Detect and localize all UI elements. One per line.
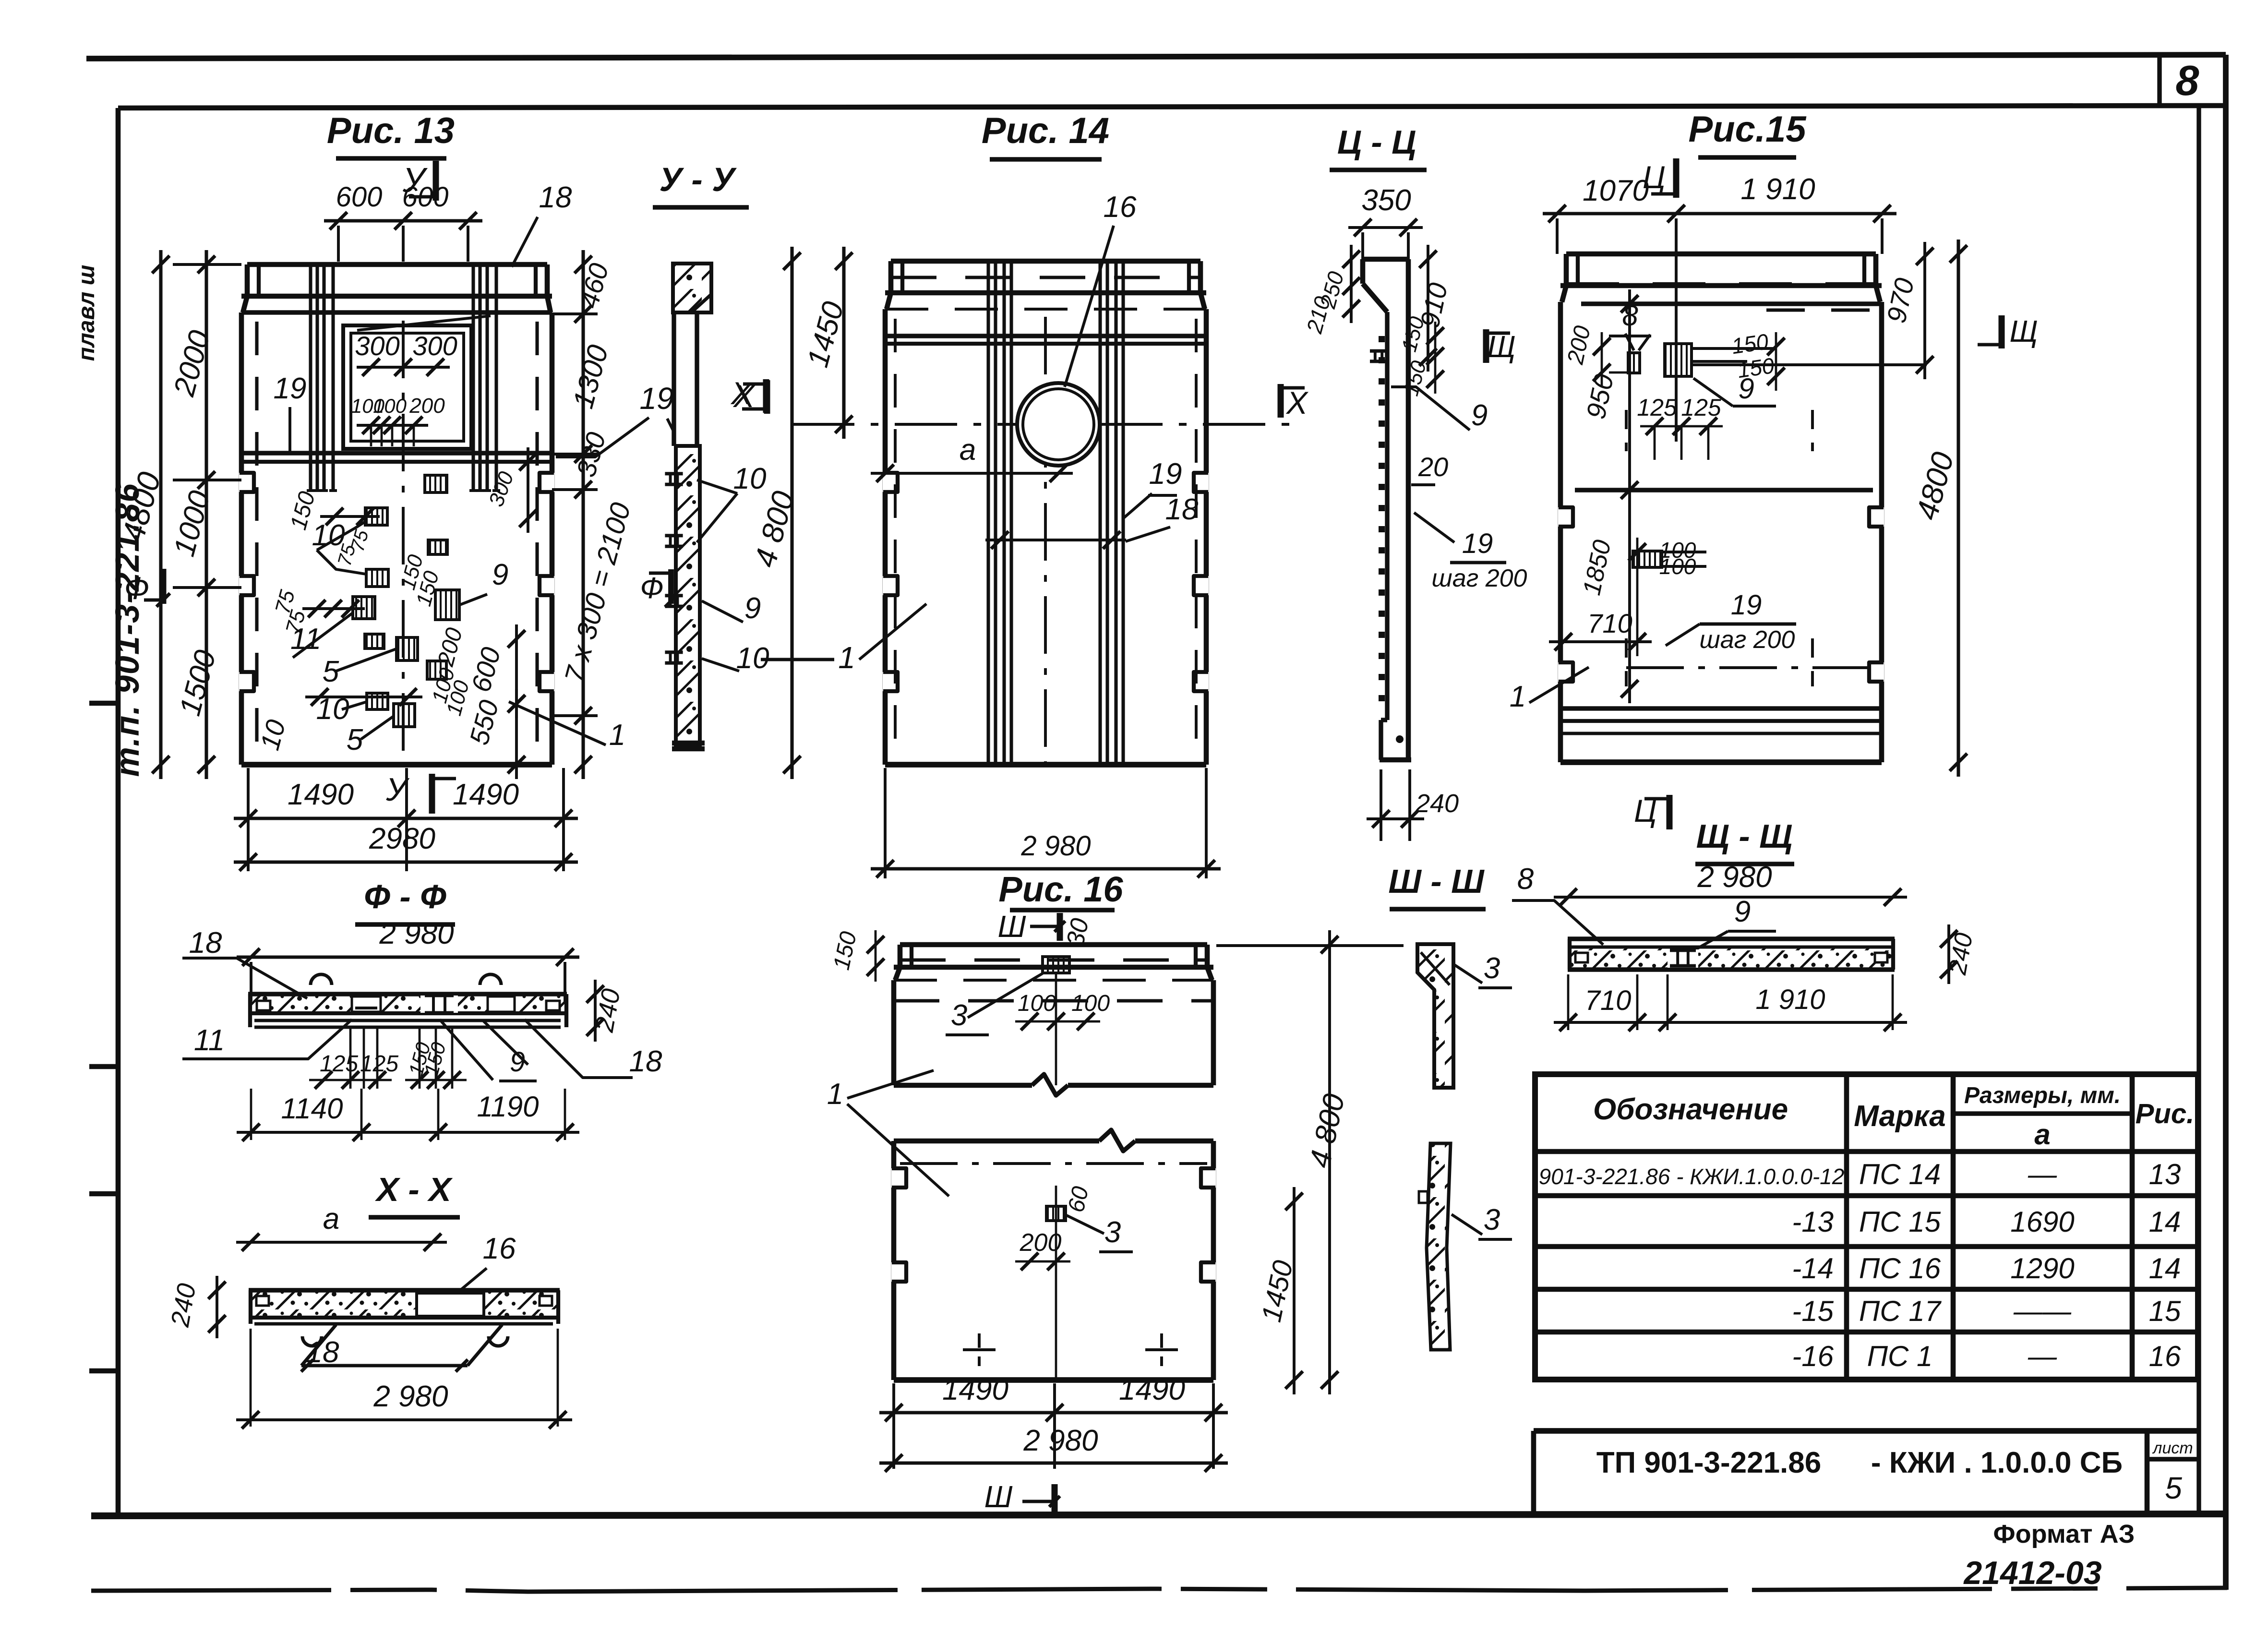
svg-text:15: 15: [2149, 1295, 2181, 1327]
svg-text:1 910: 1 910: [1755, 984, 1825, 1015]
svg-text:—: —: [2028, 1158, 2057, 1190]
svg-text:X - X: X - X: [374, 1171, 453, 1208]
svg-text:Рис.15: Рис.15: [1688, 109, 1807, 150]
svg-text:8: 8: [1622, 300, 1638, 332]
svg-text:1290: 1290: [2010, 1252, 2074, 1284]
svg-text:——: ——: [2013, 1295, 2072, 1327]
svg-text:Рис.: Рис.: [2136, 1098, 2195, 1129]
svg-text:2 980: 2 980: [1023, 1424, 1098, 1457]
svg-text:14: 14: [2149, 1252, 2181, 1284]
svg-text:Ш - Ш: Ш - Ш: [1388, 863, 1485, 900]
svg-text:1: 1: [827, 1078, 843, 1111]
svg-text:Ф: Ф: [640, 572, 663, 605]
svg-text:9: 9: [1738, 372, 1754, 405]
svg-text:1 910: 1 910: [1740, 173, 1815, 206]
svg-text:8: 8: [1517, 863, 1534, 896]
svg-text:ПС 17: ПС 17: [1859, 1295, 1942, 1327]
svg-text:9: 9: [492, 558, 508, 591]
svg-text:1: 1: [838, 640, 855, 675]
svg-text:1490: 1490: [942, 1373, 1008, 1406]
svg-text:Ц - Ц: Ц - Ц: [1337, 123, 1416, 161]
svg-text:1490: 1490: [453, 778, 519, 811]
svg-text:600: 600: [402, 181, 449, 213]
svg-text:-15: -15: [1792, 1295, 1834, 1327]
svg-text:5: 5: [2165, 1471, 2182, 1505]
svg-text:18: 18: [306, 1336, 339, 1369]
svg-text:Рис. 13: Рис. 13: [327, 110, 455, 151]
svg-text:а: а: [2034, 1118, 2050, 1151]
svg-text:Размеры, мм.: Размеры, мм.: [1964, 1083, 2121, 1108]
svg-text:200: 200: [409, 394, 445, 418]
svg-text:16: 16: [1104, 191, 1137, 224]
svg-text:125: 125: [1637, 394, 1677, 421]
svg-text:710: 710: [1585, 985, 1632, 1016]
svg-text:100: 100: [1071, 991, 1110, 1016]
svg-text:шаг 200: шаг 200: [1700, 626, 1795, 654]
svg-text:600: 600: [336, 181, 383, 213]
svg-text:Обозначение: Обозначение: [1593, 1093, 1788, 1126]
svg-text:125: 125: [320, 1051, 358, 1077]
svg-text:3: 3: [1484, 952, 1500, 985]
svg-text:14: 14: [2149, 1206, 2181, 1238]
svg-text:18: 18: [629, 1045, 662, 1078]
svg-text:20: 20: [1418, 452, 1448, 482]
svg-text:300: 300: [355, 331, 399, 361]
svg-text:—: —: [2028, 1340, 2057, 1372]
svg-text:1190: 1190: [477, 1091, 539, 1123]
svg-text:-14: -14: [1792, 1252, 1834, 1284]
svg-text:Ш: Ш: [998, 909, 1026, 944]
svg-text:a: a: [960, 433, 976, 467]
svg-text:125: 125: [360, 1051, 398, 1077]
svg-text:19: 19: [1462, 528, 1493, 559]
svg-text:300: 300: [412, 331, 457, 361]
svg-text:18: 18: [1165, 493, 1199, 526]
svg-text:Марка: Марка: [1854, 1100, 1945, 1133]
svg-text:ПС 16: ПС 16: [1859, 1252, 1941, 1284]
svg-text:9: 9: [1471, 399, 1488, 432]
svg-text:-16: -16: [1792, 1340, 1834, 1372]
svg-text:Ш: Ш: [984, 1479, 1013, 1514]
svg-text:21412-03: 21412-03: [1963, 1555, 2102, 1591]
svg-text:1140: 1140: [281, 1092, 343, 1125]
svg-text:901-3-221.86 - КЖИ.1.0.0.0-12: 901-3-221.86 - КЖИ.1.0.0.0-12: [1539, 1164, 1845, 1189]
svg-text:a: a: [323, 1202, 339, 1236]
svg-text:У - У: У - У: [659, 161, 737, 198]
svg-text:16: 16: [2149, 1340, 2181, 1372]
svg-text:710: 710: [1587, 608, 1632, 638]
svg-text:2 980: 2 980: [379, 917, 454, 950]
svg-text:- КЖИ . 1.0.0.0 СБ: - КЖИ . 1.0.0.0 СБ: [1871, 1446, 2123, 1479]
svg-text:Рис. 14: Рис. 14: [982, 110, 1109, 151]
svg-text:9: 9: [1734, 895, 1751, 928]
svg-text:3: 3: [1104, 1216, 1121, 1249]
svg-text:2980: 2980: [369, 822, 435, 855]
svg-text:Щ - Щ: Щ - Щ: [1696, 817, 1793, 855]
svg-text:18: 18: [189, 926, 222, 960]
svg-text:60: 60: [1063, 1184, 1093, 1215]
svg-text:Рис. 16: Рис. 16: [998, 869, 1123, 909]
svg-text:19: 19: [1149, 457, 1182, 491]
svg-text:100: 100: [373, 395, 407, 417]
svg-text:ПС 1: ПС 1: [1867, 1340, 1933, 1372]
svg-text:240: 240: [1415, 789, 1459, 818]
svg-text:125: 125: [1681, 394, 1721, 421]
svg-text:1: 1: [609, 719, 625, 752]
svg-text:19: 19: [639, 381, 673, 416]
svg-text:16: 16: [483, 1232, 516, 1265]
svg-text:19: 19: [274, 372, 307, 405]
svg-text:1690: 1690: [2010, 1206, 2074, 1238]
svg-text:Щ: Щ: [2009, 314, 2038, 348]
svg-text:1070: 1070: [1583, 174, 1649, 207]
svg-text:11: 11: [194, 1024, 225, 1057]
svg-text:плавл ш: плавл ш: [74, 265, 99, 361]
svg-text:2 980: 2 980: [1020, 830, 1091, 862]
svg-text:9: 9: [744, 592, 761, 625]
svg-text:9: 9: [510, 1046, 525, 1078]
svg-text:18: 18: [539, 181, 572, 214]
svg-text:13: 13: [2149, 1158, 2181, 1190]
svg-text:350: 350: [1361, 184, 1411, 217]
svg-text:3: 3: [1484, 1203, 1500, 1236]
svg-text:19: 19: [1731, 589, 1762, 621]
svg-text:8: 8: [2176, 57, 2199, 104]
svg-text:ТП 901-3-221.86: ТП 901-3-221.86: [1596, 1446, 1822, 1479]
svg-text:1490: 1490: [1119, 1373, 1185, 1406]
svg-text:1: 1: [1510, 680, 1526, 713]
svg-text:лист: лист: [2152, 1439, 2193, 1457]
svg-text:3: 3: [951, 999, 967, 1032]
svg-text:У: У: [385, 771, 410, 808]
svg-text:X: X: [1285, 385, 1309, 420]
svg-text:Формат АЗ: Формат АЗ: [1993, 1520, 2135, 1548]
svg-text:-13: -13: [1792, 1206, 1834, 1238]
svg-text:5: 5: [347, 723, 363, 756]
svg-text:шаг 200: шаг 200: [1432, 564, 1527, 592]
svg-text:ПС 14: ПС 14: [1859, 1158, 1941, 1190]
svg-text:1490: 1490: [288, 778, 354, 811]
svg-text:2 980: 2 980: [373, 1380, 448, 1413]
svg-text:ПС 15: ПС 15: [1859, 1206, 1941, 1238]
svg-text:10: 10: [733, 462, 767, 495]
svg-text:Ф - Ф: Ф - Ф: [364, 878, 446, 915]
svg-text:2 980: 2 980: [1697, 861, 1772, 894]
